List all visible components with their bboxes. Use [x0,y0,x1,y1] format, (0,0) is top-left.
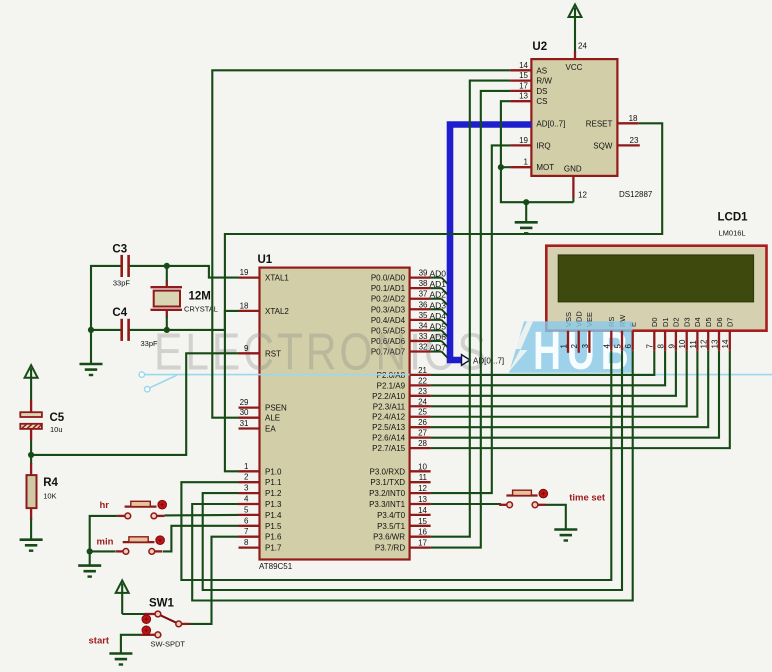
wire C3 left to C4 left vertical [91,266,121,364]
svg-text:GND: GND [564,165,582,174]
svg-text:AS: AS [536,66,547,75]
svg-text:AD7: AD7 [430,343,447,353]
svg-text:6: 6 [624,344,633,349]
svg-text:5: 5 [244,505,249,514]
LCD LCD1 LM016L [546,212,766,331]
bus taps AD0-AD7 with net labels [430,269,448,358]
svg-text:8: 8 [657,344,666,349]
svg-text:P2.3/A11: P2.3/A11 [373,402,406,411]
junction min-left [87,548,93,554]
pin stubs U2 right with numbers 18 23 [617,114,639,146]
LCD pin numbers 1-14 [559,339,730,348]
svg-text:P1.0: P1.0 [265,467,282,476]
wire min left link [90,550,115,552]
pin stubs U1 right P0 P2 P3 with numbers [410,269,431,548]
svg-text:26: 26 [418,418,427,427]
svg-text:13: 13 [519,92,528,101]
svg-text:23: 23 [418,387,427,396]
svg-text:P1.6: P1.6 [265,533,282,542]
svg-text:IRQ: IRQ [536,141,550,150]
wire P1.6 to SW1 pole [190,537,239,624]
wire time set to ground [546,505,566,530]
ground time set [554,530,577,541]
svg-text:C3: C3 [112,243,127,255]
wire U2 RESET to P1.0 [225,123,662,471]
svg-text:3: 3 [244,484,249,493]
svg-text:2: 2 [570,344,579,349]
wire P3.3 INT1 to time set button [431,503,501,505]
svg-text:4: 4 [603,344,612,349]
svg-text:P3.7/RD: P3.7/RD [375,544,405,553]
svg-text:AD5: AD5 [430,321,447,331]
svg-text:D3: D3 [683,317,692,327]
svg-text:AD1: AD1 [430,279,447,289]
svg-text:XTAL1: XTAL1 [265,274,289,283]
svg-text:4: 4 [244,495,249,504]
svg-text:13: 13 [418,495,427,504]
svg-text:MOT: MOT [536,163,554,172]
svg-text:1: 1 [524,158,529,167]
wire P1.2 to LCD RW [203,351,622,590]
ground hr-min [78,566,101,577]
svg-text:U2: U2 [532,41,547,53]
label time set [569,493,606,504]
wire SW1 throw1 [122,613,144,615]
svg-text:16: 16 [418,528,427,537]
svg-text:EA: EA [265,425,276,434]
svg-text:11: 11 [689,340,698,349]
svg-text:6: 6 [244,516,249,525]
svg-text:27: 27 [418,429,427,438]
wire GND stub U2 [572,176,574,198]
svg-text:D7: D7 [726,317,735,327]
IC U1 AT89C51 [258,254,410,571]
svg-text:19: 19 [240,268,249,277]
crystal X1 12M [151,266,218,330]
IC U2 DS12887 [531,41,653,199]
svg-text:P3.0/RXD: P3.0/RXD [370,467,406,476]
svg-text:P1.1: P1.1 [265,478,282,487]
power VCC arrow U2 [569,5,582,53]
svg-text:P0.2/AD2: P0.2/AD2 [371,295,406,304]
svg-text:D1: D1 [661,317,670,327]
svg-text:AD[0..7]: AD[0..7] [536,120,565,129]
svg-text:D5: D5 [704,317,713,327]
svg-text:D2: D2 [672,317,681,327]
svg-text:8: 8 [244,538,249,547]
junction U2 ground [523,199,529,205]
svg-text:12: 12 [700,339,709,348]
svg-text:AD6: AD6 [430,332,447,342]
svg-text:34: 34 [419,321,428,330]
svg-text:ALE: ALE [265,414,280,423]
svg-text:AD2: AD2 [430,290,447,300]
junction C4 left [88,327,94,333]
svg-text:P3.3/INT1: P3.3/INT1 [369,500,406,509]
junction CS-MOT [498,164,504,170]
svg-text:14: 14 [519,61,528,70]
wire R/W to P3.6 WR [431,81,511,537]
svg-text:D6: D6 [715,317,724,327]
svg-text:DS: DS [536,87,547,96]
svg-text:AD3: AD3 [430,300,447,310]
svg-text:P2.5/A13: P2.5/A13 [372,423,405,432]
svg-text:start: start [89,636,110,647]
svg-text:R/W: R/W [536,77,552,86]
svg-text:9: 9 [667,344,676,349]
svg-text:LM016L: LM016L [719,229,746,238]
svg-text:P1.5: P1.5 [265,522,282,531]
svg-text:37: 37 [419,290,428,299]
svg-text:7: 7 [646,344,655,349]
watermark blue line and circles [139,372,772,392]
label hr [100,500,110,511]
wire U2 ground stem [525,202,527,222]
svg-text:22: 22 [418,376,427,385]
svg-text:P0.1/AD1: P0.1/AD1 [371,284,406,293]
svg-text:AD[0...7]: AD[0...7] [473,357,504,366]
svg-text:U1: U1 [258,254,273,266]
svg-text:hr: hr [100,500,110,511]
ground crystal [80,364,103,375]
svg-text:14: 14 [418,506,427,515]
svg-text:39: 39 [419,269,428,278]
svg-text:LCD1: LCD1 [718,212,749,224]
svg-text:24: 24 [418,397,427,406]
svg-text:1: 1 [244,462,249,471]
svg-text:17: 17 [418,539,427,548]
wire hr button to P1.4 [164,514,238,517]
capacitor C4 [112,307,158,348]
wire AS to ALE [212,70,510,417]
svg-text:VCC: VCC [566,63,583,72]
svg-text:P3.5/T1: P3.5/T1 [377,522,406,531]
resistor R4 10K [27,455,59,540]
svg-text:D0: D0 [650,317,659,327]
svg-text:9: 9 [244,344,249,353]
svg-text:33pF: 33pF [141,339,159,348]
svg-text:D4: D4 [693,317,702,327]
svg-text:7: 7 [244,527,249,536]
pin stubs U2 left with numbers 14 15 17 13 19 1 [510,61,531,167]
svg-text:2: 2 [244,473,249,482]
wire P1.1 to LCD RS [181,351,611,580]
svg-text:P3.1/TXD: P3.1/TXD [370,478,405,487]
button time set [499,489,547,507]
svg-text:35: 35 [419,311,428,320]
ground SW1 [109,654,132,665]
svg-text:XTAL2: XTAL2 [265,307,289,316]
svg-text:15: 15 [519,71,528,80]
wire C3 to XTAL1 [130,266,239,278]
pin number 24 U2 VCC [578,42,587,51]
svg-text:24: 24 [578,42,587,51]
watermark blue box with HUB [508,320,635,381]
svg-text:30: 30 [240,408,249,417]
junction RST node [28,452,34,458]
button hr [117,500,166,518]
ground U2 [515,222,538,233]
svg-text:P1.4: P1.4 [265,511,282,520]
svg-text:P2.2/A10: P2.2/A10 [372,392,405,401]
svg-text:SQW: SQW [593,141,613,150]
svg-text:29: 29 [240,398,249,407]
wire MOT stub link [501,166,511,168]
svg-text:P3.2/INT0: P3.2/INT0 [369,489,406,498]
label start [89,636,110,647]
svg-text:21: 21 [418,366,427,375]
svg-text:12: 12 [578,191,587,200]
svg-text:17: 17 [519,81,528,90]
pin stubs LCD [568,331,730,353]
svg-text:P2.4/A12: P2.4/A12 [372,413,405,422]
svg-text:19: 19 [519,136,528,145]
svg-text:P1.2: P1.2 [265,489,282,498]
svg-text:15: 15 [418,517,427,526]
svg-text:time set: time set [569,493,606,504]
power VCC arrow SW1 [116,580,129,614]
label min [97,537,114,548]
wire RST network [31,353,238,455]
svg-text:CS: CS [536,97,547,106]
svg-text:AD4: AD4 [430,311,447,321]
svg-text:38: 38 [419,279,428,288]
wire CS to ground net [501,101,574,202]
wire DS to P3.7 RD [431,91,511,548]
bus AD[0..7] blue [450,125,531,361]
svg-text:14: 14 [721,339,730,348]
pin stubs U1 left with numbers [239,268,260,547]
svg-text:28: 28 [418,439,427,448]
svg-text:36: 36 [419,300,428,309]
svg-text:P2.1/A9: P2.1/A9 [377,381,406,390]
capacitor C5 10u [20,400,65,455]
junction crystal top [164,263,170,269]
svg-text:P3.4/T0: P3.4/T0 [377,511,406,520]
svg-text:1: 1 [559,344,568,349]
svg-text:R4: R4 [43,477,58,489]
svg-text:P0.0/AD0: P0.0/AD0 [371,274,406,283]
watermark ELECTRONICS text [154,324,489,382]
junction crystal bottom [164,327,170,333]
svg-text:12M: 12M [189,291,211,303]
wire U2 GND pin down [572,197,574,202]
svg-text:3: 3 [581,344,590,349]
svg-text:P1.3: P1.3 [265,500,282,509]
svg-text:5: 5 [613,344,622,349]
svg-text:P2.7/A15: P2.7/A15 [372,444,405,453]
svg-text:AT89C51: AT89C51 [259,562,293,571]
svg-text:11: 11 [419,473,428,482]
svg-text:12: 12 [418,484,427,493]
svg-text:33: 33 [419,332,428,341]
svg-text:10K: 10K [43,492,56,501]
wires P2.0-P2.7 to LCD D0-D7 [431,351,730,448]
svg-text:33pF: 33pF [113,278,131,287]
wire VCC stub U2 [574,51,576,59]
bus arrow and net label AD[0...7] [462,355,505,366]
svg-text:P2.6/A14: P2.6/A14 [372,434,405,443]
svg-text:HUB: HUB [533,320,635,381]
wire IRQ to P3.2 INT0 [431,145,511,493]
wire min button to P1.5 [163,526,239,552]
svg-text:10: 10 [678,339,687,348]
svg-text:DS12887: DS12887 [619,190,653,199]
svg-text:10u: 10u [50,425,63,434]
wire P1.3 to LCD E [192,351,633,601]
svg-text:10: 10 [418,462,427,471]
switch SW1 SW-SPDT [140,598,190,649]
svg-text:18: 18 [240,301,249,310]
svg-text:C4: C4 [112,307,127,319]
svg-text:25: 25 [418,408,427,417]
svg-text:RESET: RESET [586,119,613,128]
svg-text:PSEN: PSEN [265,404,287,413]
svg-text:P1.7: P1.7 [265,544,282,553]
svg-text:31: 31 [240,419,249,428]
svg-text:18: 18 [629,114,638,123]
pin number 12 U2 GND [578,191,587,200]
button min [115,536,164,554]
power VCC arrow C5 [25,365,38,400]
ground R4 [20,540,43,551]
svg-text:P3.6/WR: P3.6/WR [373,533,405,542]
svg-text:32: 32 [419,343,428,352]
svg-text:SW1: SW1 [149,598,175,610]
wire hr-min left vertical to ground [90,516,118,566]
wire SW1 throw2 to ground [121,635,140,654]
capacitor C3 [112,243,130,287]
svg-text:min: min [97,537,114,548]
svg-text:23: 23 [630,136,639,145]
svg-text:13: 13 [710,339,719,348]
svg-text:C5: C5 [50,412,65,424]
svg-text:P0.3/AD3: P0.3/AD3 [371,305,406,314]
svg-text:SW-SPDT: SW-SPDT [151,640,186,649]
svg-text:AD0: AD0 [430,269,447,279]
wire C4 to crystal bottom to XTAL2 [130,311,239,330]
